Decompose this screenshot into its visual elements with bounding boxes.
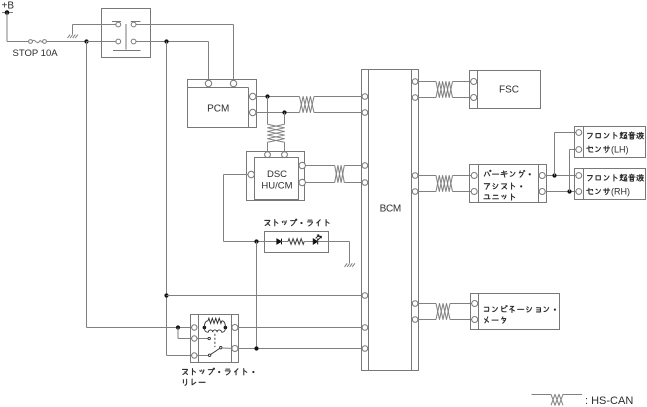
svg-text:BCM: BCM	[380, 204, 401, 215]
svg-text:PCM: PCM	[207, 104, 229, 115]
svg-text:DSC: DSC	[267, 169, 287, 180]
svg-text:STOP 10A: STOP 10A	[13, 48, 59, 59]
svg-text:(LH): (LH)	[611, 144, 629, 154]
svg-text:: HS-CAN: : HS-CAN	[585, 395, 633, 407]
svg-text:HU/CM: HU/CM	[261, 180, 292, 191]
svg-text:FSC: FSC	[499, 85, 519, 96]
svg-text:+B: +B	[2, 1, 15, 12]
svg-text:(RH): (RH)	[611, 187, 630, 197]
